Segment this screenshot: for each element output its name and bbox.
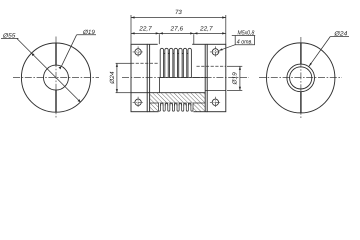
- svg-text:Ø19: Ø19: [232, 72, 239, 86]
- svg-text:Ø55: Ø55: [2, 33, 16, 40]
- svg-text:4 отв.: 4 отв.: [237, 39, 253, 46]
- svg-text:Ø24: Ø24: [109, 71, 116, 85]
- svg-text:Ø24: Ø24: [333, 31, 348, 38]
- svg-text:22,7: 22,7: [138, 26, 152, 33]
- svg-text:73: 73: [175, 9, 182, 16]
- svg-text:Ø19: Ø19: [82, 29, 95, 36]
- svg-text:22,7: 22,7: [199, 26, 213, 33]
- svg-text:27,6: 27,6: [169, 26, 183, 33]
- svg-text:M5x0,8: M5x0,8: [238, 30, 255, 37]
